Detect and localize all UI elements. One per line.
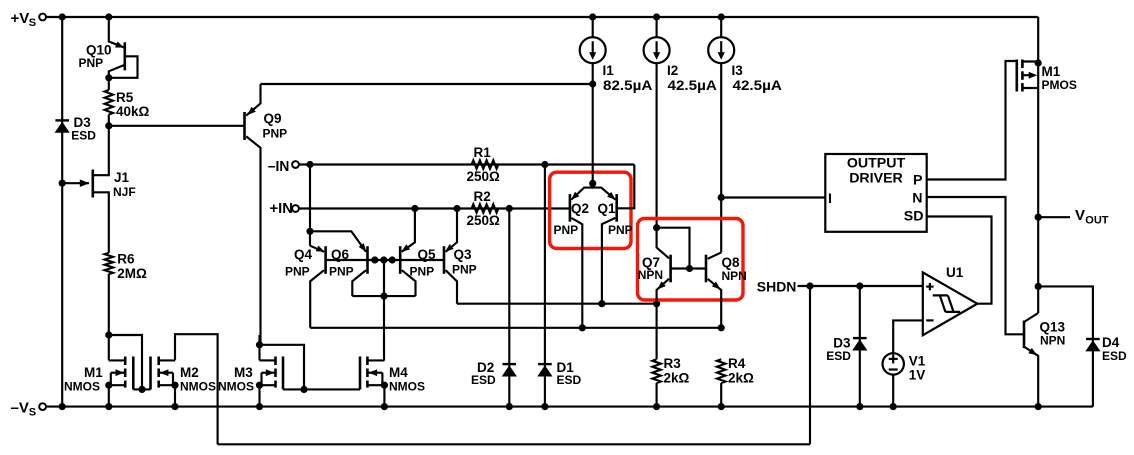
svg-text:V: V: [1075, 207, 1085, 224]
svg-text:V1: V1: [909, 354, 926, 369]
svg-text:R4: R4: [728, 356, 746, 371]
svg-text:U1: U1: [946, 265, 964, 280]
Vout node: [1035, 214, 1042, 221]
transistor M1 (NMOS, diode-connected): [124, 357, 127, 366]
-Vs supply terminal: [39, 403, 46, 410]
svg-text:M2: M2: [180, 365, 199, 380]
svg-text:Q9: Q9: [264, 111, 282, 126]
svg-text:NPN: NPN: [638, 268, 663, 282]
wire N output to Q13 base: [927, 197, 1024, 334]
current source I3 42.5uA: [720, 17, 722, 37]
wire Vout to Q13 collector: [1037, 217, 1039, 313]
svg-text:42.5µA: 42.5µA: [668, 78, 718, 93]
transistor Q4 (PNP): [324, 246, 327, 274]
svg-text:2MΩ: 2MΩ: [117, 266, 147, 281]
wire +IN line: [299, 207, 570, 209]
transistor Q7 (NPN, diode-connected): [669, 255, 672, 283]
wire left ESD branch: [61, 17, 63, 407]
svg-text:I2: I2: [667, 63, 678, 78]
svg-text:NPN: NPN: [722, 269, 747, 283]
svg-text:NJF: NJF: [113, 185, 136, 199]
svg-text:M3: M3: [234, 365, 253, 380]
wire M3 gate-drain tie: [260, 345, 305, 390]
svg-text:–V: –V: [11, 400, 29, 417]
diode D2 (ESD): [508, 209, 510, 407]
svg-text:PNP: PNP: [79, 56, 104, 70]
diode D3 (SHDN ESD): [859, 286, 861, 407]
svg-text:PNP: PNP: [263, 127, 288, 141]
transistor M3 (NMOS, diode-connected): [274, 357, 277, 366]
svg-text:NPN: NPN: [1040, 333, 1065, 347]
svg-text:Q4: Q4: [294, 247, 313, 262]
svg-text:2kΩ: 2kΩ: [664, 371, 690, 386]
svg-text:J1: J1: [114, 170, 130, 185]
wire Q2 base from +IN: [569, 207, 571, 209]
diode D3 (input ESD): [55, 119, 69, 121]
svg-text:NMOS: NMOS: [389, 380, 425, 394]
wire quad collector loop: [352, 295, 415, 297]
svg-text:SD: SD: [904, 209, 924, 225]
svg-text:ESD: ESD: [557, 373, 582, 387]
highlight box Q7/Q8: [638, 219, 744, 301]
wire M1 source/drain column: [1037, 17, 1039, 217]
wire -IN line: [299, 163, 634, 165]
voltage source V1 1V: [883, 353, 904, 374]
transistor Q3 (PNP, mirrored): [443, 246, 446, 274]
wire Q1 base wrap from -IN: [617, 165, 635, 209]
svg-text:1V: 1V: [909, 368, 926, 383]
hysteresis symbol: [933, 295, 961, 312]
svg-text:R3: R3: [664, 356, 682, 371]
wire SHDN bypass down: [809, 286, 811, 444]
wire -IN branch to clamp: [309, 165, 311, 246]
svg-text:ESD: ESD: [1102, 349, 1127, 363]
wire quad common base rail: [326, 259, 444, 261]
resistor R2 250: [472, 204, 499, 212]
svg-text:42.5µA: 42.5µA: [733, 78, 783, 93]
svg-text:S: S: [29, 17, 36, 29]
transistor Q10 (PNP): [124, 42, 127, 70]
node R5/Q9 base: [105, 122, 112, 129]
transistor Q9 (PNP): [243, 112, 246, 140]
wire Q7 collector-base tie: [657, 228, 690, 269]
diode D1 (ESD): [544, 165, 546, 407]
svg-text:250Ω: 250Ω: [467, 213, 501, 228]
svg-text:+IN: +IN: [270, 200, 293, 217]
top +Vs rail wire: [46, 16, 1038, 18]
wire SHDN line: [798, 285, 923, 287]
resistor R6 2M: [105, 253, 113, 274]
svg-text:NMOS: NMOS: [180, 380, 216, 394]
svg-text:Q8: Q8: [722, 255, 741, 270]
svg-text:Q2: Q2: [571, 201, 589, 216]
node J1 gate: [59, 180, 66, 187]
svg-text:ESD: ESD: [71, 129, 96, 143]
resistor R3 2k: [656, 304, 658, 360]
transistor Q2 (PNP): [569, 194, 572, 222]
svg-text:PNP: PNP: [329, 265, 354, 279]
svg-text:OUTPUT: OUTPUT: [847, 156, 906, 172]
svg-text:N: N: [912, 190, 922, 206]
wire Q9 emitter to I1: [261, 83, 593, 85]
svg-text:M1: M1: [84, 365, 103, 380]
svg-text:I3: I3: [732, 63, 744, 78]
svg-text:PNP: PNP: [554, 223, 579, 237]
wire M4 drain from quad center: [383, 296, 386, 360]
svg-text:DRIVER: DRIVER: [849, 171, 903, 187]
svg-text:–IN: –IN: [268, 158, 289, 175]
svg-text:ESD: ESD: [826, 349, 851, 363]
svg-text:P: P: [913, 173, 922, 189]
transistor Q8 (NPN, mirrored): [705, 255, 708, 283]
svg-text:M4: M4: [389, 365, 408, 380]
svg-text:D4: D4: [1102, 335, 1120, 350]
svg-text:R1: R1: [474, 145, 492, 160]
wire Q4 collector to R4 node: [310, 327, 721, 329]
diode D4 (ESD): [1038, 286, 1093, 406]
transistor J1 (NJF): [92, 170, 95, 198]
comparator U1: [923, 272, 978, 335]
svg-text:I: I: [828, 191, 832, 207]
transistor Q13 (NPN): [1023, 321, 1026, 349]
transistor Q6 (PNP): [366, 246, 369, 274]
current source I1 82.5uA: [592, 17, 594, 37]
wire SD input from U1: [927, 217, 992, 304]
resistor R4 2k: [717, 359, 725, 383]
svg-text:PNP: PNP: [285, 265, 310, 279]
svg-text:PMOS: PMOS: [1042, 78, 1077, 92]
svg-text:2kΩ: 2kΩ: [728, 371, 754, 386]
svg-text:R5: R5: [116, 90, 134, 105]
wire Q9 base line: [109, 125, 245, 127]
svg-text:OUT: OUT: [1085, 215, 1109, 227]
resistor R1 250: [472, 160, 499, 168]
wire Q7/Q8 base line: [671, 267, 706, 269]
svg-text:NMOS: NMOS: [64, 380, 100, 394]
transistor M1 (PMOS): [1021, 60, 1024, 69]
svg-text:Q13: Q13: [1040, 320, 1066, 335]
highlight box Q2/Q1: [550, 172, 631, 248]
transistor Q5 (PNP, mirrored): [399, 246, 402, 274]
svg-text:40kΩ: 40kΩ: [116, 104, 150, 119]
block OUTPUT DRIVER: [825, 154, 926, 232]
wire quad center tail: [383, 260, 385, 296]
wire Q3 collector to Q7 emitter: [457, 303, 657, 305]
transistor M2 (NMOS): [157, 357, 160, 366]
svg-text:+V: +V: [11, 10, 30, 27]
svg-text:SHDN: SHDN: [757, 279, 797, 295]
svg-text:PNP: PNP: [608, 223, 633, 237]
transistor M4 (NMOS): [366, 357, 369, 366]
svg-text:R2: R2: [474, 189, 491, 204]
svg-text:ESD: ESD: [471, 373, 496, 387]
svg-text:R6: R6: [117, 252, 135, 267]
svg-text:Q3: Q3: [454, 247, 473, 262]
resistor R5 40k: [108, 78, 110, 90]
svg-text:NMOS: NMOS: [218, 380, 254, 394]
svg-text:250Ω: 250Ω: [467, 169, 501, 184]
current source I2 42.5uA: [656, 17, 658, 37]
svg-text:PNP: PNP: [410, 265, 435, 279]
wire I1 to pair emitters: [592, 84, 594, 183]
wire M2 drain to SHDN bypass: [175, 334, 218, 444]
+Vs supply terminal: [39, 14, 46, 21]
bottom -Vs rail wire: [46, 406, 1093, 408]
svg-text:S: S: [29, 407, 36, 419]
svg-text:PNP: PNP: [452, 263, 477, 277]
svg-text:M1: M1: [1042, 64, 1061, 79]
svg-text:I1: I1: [603, 63, 615, 78]
wire P output to M1 gate: [927, 61, 1017, 180]
node I3 / driver input: [718, 194, 725, 201]
transistor Q1 (PNP, mirrored): [615, 194, 618, 222]
svg-text:Q1: Q1: [598, 201, 617, 216]
wire driver input I: [721, 196, 825, 198]
wire M1 gate-drain tie: [109, 335, 142, 389]
svg-text:82.5µA: 82.5µA: [603, 78, 653, 93]
wire bottom bypass: [218, 443, 810, 445]
